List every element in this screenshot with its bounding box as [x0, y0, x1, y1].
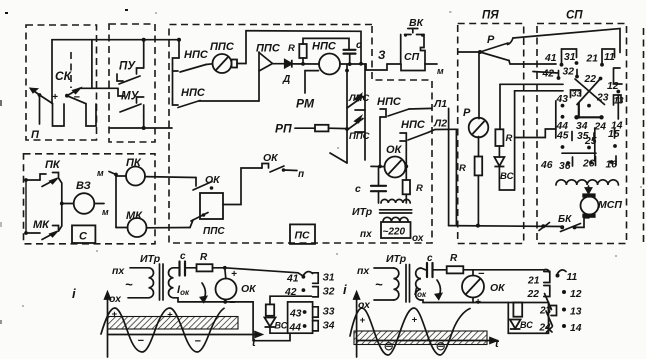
contact NPS-A1: [380, 109, 409, 117]
svg-text:+: +: [360, 315, 366, 326]
svg-text:~: ~: [375, 277, 383, 292]
hbar end dots: [574, 115, 578, 119]
stray scan speck top-left: [5, 12, 8, 14]
svg-text:~: ~: [125, 277, 133, 292]
motor MSP brush bottom: [582, 214, 595, 218]
wire: SK plunger U right: [86, 104, 96, 126]
svg-text:26: 26: [582, 159, 595, 170]
node OK left: [378, 165, 382, 169]
svg-text:З1: З1: [323, 273, 335, 284]
contact Z (bridge): [366, 64, 387, 70]
svg-text:ВС: ВС: [500, 171, 514, 182]
wire: secondary top to cap (right): [421, 268, 426, 270]
device box S: [72, 225, 95, 243]
dot col4 mid: [561, 115, 565, 119]
bracket 21: [544, 269, 550, 282]
wire: to terminal A1: [409, 107, 432, 110]
diode VS (right diagram): [510, 320, 521, 330]
motor MSP (circle): [581, 197, 599, 215]
hatched band: [108, 317, 239, 330]
svg-text:−: −: [138, 335, 145, 347]
svg-text:ПК: ПК: [45, 159, 61, 171]
resistor R (snubber, vertical): [299, 44, 306, 58]
resistor R (vertical): [403, 180, 410, 194]
axis vertical with arrow (right): [354, 292, 360, 357]
contact MU: [118, 88, 144, 116]
contact OK output: [262, 164, 297, 173]
pin 32 hooks: [559, 70, 578, 78]
wire: OK left lead: [371, 165, 385, 167]
capacitor c (left diagram): [180, 262, 186, 276]
relay frame box: [200, 193, 223, 219]
wire: feed down to OK coil right: [405, 141, 407, 166]
contact P (changeover): [480, 38, 513, 61]
pin 31 bracket: [562, 49, 577, 64]
svg-text:31: 31: [564, 52, 576, 63]
machine MK (circle): [128, 218, 147, 237]
wire: coil to motor with arrow: [586, 186, 592, 193]
resistor R2 (vertical): [495, 129, 503, 146]
pin 31 dots: [560, 63, 564, 67]
contact NPS lower: [173, 99, 201, 108]
brush terminal of PPS machine: [232, 60, 238, 68]
terminal 14 dot: [562, 324, 566, 328]
wire: vertical joining PK and MK coils: [115, 175, 117, 228]
wire: VK right leg with jog: [421, 35, 426, 65]
svg-text:21: 21: [527, 276, 540, 287]
wire: R to bottom rail: [477, 175, 479, 225]
svg-text:i: i: [343, 282, 347, 297]
wire: m stub: [109, 172, 116, 175]
current arrow arc (right): [436, 280, 442, 299]
selector slant 23-24: [546, 311, 553, 326]
selector matrix SP: [540, 49, 624, 172]
wire: to VZ: [62, 203, 74, 205]
wire: contacts common vertical to VZ: [59, 178, 62, 231]
svg-text:Д: Д: [282, 74, 290, 85]
svg-text:ВС: ВС: [520, 320, 533, 330]
wire: to PK coil: [116, 175, 126, 177]
wire: SK right inner vertical: [91, 40, 93, 89]
wire: SK to MU cross wire y=88: [80, 87, 118, 89]
svg-text:+: +: [231, 269, 237, 280]
wire: ox lead: [128, 297, 149, 299]
svg-text:БК: БК: [558, 214, 572, 225]
svg-text:с: с: [355, 183, 361, 195]
wire: main wire NPS to Z bridge: [340, 63, 366, 65]
wire: left box edge vertical between contacts: [25, 180, 27, 233]
dashed box SP: [537, 24, 627, 244]
wire: Z2 to RC branch: [270, 296, 312, 304]
resistor R (right diagram): [447, 266, 464, 273]
current arrow arc: [201, 283, 207, 302]
wire: P meter drop: [478, 52, 480, 119]
wire: vertical rail x347 (cap node down): [346, 64, 348, 163]
capacitor c (coupling): [371, 186, 386, 191]
wire: P contact common lead: [458, 51, 480, 53]
node at x361: [359, 62, 363, 66]
wire: relay tap to OK output contact: [223, 168, 262, 205]
svg-text:с: с: [427, 253, 433, 264]
contact PPS lower (to MK): [190, 213, 208, 228]
svg-text:R: R: [288, 43, 295, 54]
svg-text:~220: ~220: [383, 227, 406, 238]
node at R bottom: [301, 62, 305, 66]
wire: SK plunger U left: [53, 104, 65, 127]
svg-text:МК: МК: [126, 210, 143, 222]
circled minus 1: [385, 343, 392, 350]
pushbutton VK: [404, 29, 424, 37]
bracket 22: [544, 286, 550, 297]
terminal 12 dot: [562, 290, 566, 294]
hook 41: [304, 272, 313, 275]
svg-text:43: 43: [556, 94, 569, 105]
amplifier PPS arrow: [259, 52, 273, 101]
wire: BK to motor bottom: [575, 218, 590, 228]
label PS box: [290, 224, 315, 244]
node at PU box top: [142, 38, 146, 42]
hook 11: [558, 270, 567, 274]
svg-text:Л2: Л2: [433, 118, 447, 130]
contact MK left: [24, 226, 58, 240]
svg-text:Р: Р: [487, 34, 495, 46]
pin 32 dots: [557, 76, 561, 80]
resistor R (VS branch right): [513, 303, 522, 317]
wire: OK top stub: [225, 268, 226, 279]
cross mark x: [547, 327, 553, 332]
r5 dots: [561, 145, 565, 149]
wire: R to terminal 21: [463, 269, 544, 271]
svg-text:−: −: [195, 336, 202, 348]
wire: MK circle to PPS contact: [147, 227, 191, 229]
wire: RM stub from machine: [305, 71, 319, 93]
svg-text:ПУ: ПУ: [119, 61, 136, 73]
svg-text:14: 14: [570, 323, 582, 334]
svg-text:З2: З2: [323, 287, 335, 298]
wire: OK top stub (right): [472, 270, 474, 276]
thyristor PPS: [347, 117, 365, 133]
svg-text:+: +: [52, 92, 58, 103]
wire: cap to R: [185, 267, 197, 269]
bracket Z3: [313, 307, 319, 317]
svg-text:ВЗ: ВЗ: [76, 180, 91, 192]
wire: R stubs: [405, 166, 407, 180]
svg-text:32: 32: [563, 67, 575, 78]
svg-text:СП: СП: [566, 10, 583, 22]
terminal 43 dot: [303, 310, 307, 314]
pin 22 dot: [599, 77, 603, 81]
svg-text:11: 11: [567, 272, 578, 283]
svg-text:33: 33: [572, 89, 582, 99]
wire: px lead (right): [374, 267, 394, 269]
svg-text:46: 46: [540, 160, 553, 171]
machine NPS (plain circle): [319, 54, 340, 75]
wire: NPS lower to PPS arrow base: [199, 100, 259, 102]
svg-text:пх: пх: [360, 229, 372, 240]
svg-text:ОК: ОК: [386, 144, 403, 156]
svg-text:пх: пх: [357, 265, 370, 277]
wire: to MK coil: [116, 227, 128, 229]
axis horizontal with arrow: [108, 332, 263, 338]
contact NPS-A2: [400, 133, 428, 142]
svg-text:НПС: НПС: [312, 41, 337, 53]
wire: second column x514: [514, 91, 516, 190]
svg-text:ИТр: ИТр: [352, 206, 373, 218]
wire: cap bottom stub: [349, 54, 351, 65]
stray speck left edge: [0, 100, 2, 106]
wire: R2 column vertical: [499, 84, 501, 129]
contact OK upper: [193, 178, 213, 191]
thyristor LPS: [347, 95, 365, 111]
contact BK: [560, 224, 580, 232]
svg-text:R: R: [200, 252, 208, 263]
pin 12 bracket: [614, 68, 623, 84]
diode VS (left diagram): [265, 318, 276, 328]
node RP junction: [345, 127, 349, 131]
svg-text:41: 41: [544, 53, 557, 64]
svg-text:ППС: ППС: [210, 41, 235, 53]
wire: SK left vertical: [51, 40, 53, 104]
contact PK left: [24, 173, 58, 187]
bracket Z2: [313, 287, 319, 297]
node OK right: [404, 165, 408, 169]
wire: bridge to terminal m: [425, 63, 437, 65]
resistor R (PYa left): [475, 157, 483, 176]
motor MSP brush top: [582, 193, 595, 197]
svg-text:R: R: [416, 183, 423, 194]
svg-text:44: 44: [289, 323, 302, 334]
matrix hbar row56: [562, 152, 596, 154]
svg-text:С: С: [79, 231, 88, 243]
terminal 42 dot: [302, 288, 306, 292]
svg-text:СК: СК: [55, 69, 73, 83]
terminal 44 dot: [303, 324, 307, 328]
transformer ITr primary winding: [381, 199, 410, 203]
wire: vertical rail x365 down from main wire: [364, 64, 366, 160]
wire: R2 to VS: [498, 146, 500, 157]
sine waveform: [101, 308, 224, 352]
transformer ITr core: [380, 209, 412, 211]
transformer secondary (vertical winding): [169, 268, 174, 298]
terminal 41 dot: [302, 275, 306, 279]
wire: ox lead (right): [374, 299, 394, 301]
diode D: [285, 60, 292, 68]
svg-text:23: 23: [596, 93, 609, 104]
wire: NPS bracket down feed: [172, 64, 174, 99]
device VZ (circle): [74, 193, 95, 214]
transformer core lines: [159, 264, 161, 300]
svg-text:ОК: ОК: [241, 283, 257, 295]
wire: feed to matrix row4: [515, 129, 556, 138]
svg-text:п: п: [298, 169, 304, 180]
meter P (circle with slash): [469, 118, 489, 138]
wire: secondary bottom return: [174, 298, 179, 302]
machine PPS (circle with slash): [213, 54, 232, 73]
bracket Z4: [313, 321, 319, 331]
emitter diagonal bottom: [330, 153, 347, 163]
wire: bottom rail: [449, 225, 563, 228]
node below OK: [223, 300, 227, 304]
wire: upper throw rail to SP top right: [513, 29, 620, 53]
r3 dots: [561, 104, 565, 108]
svg-text:ИТр: ИТр: [140, 253, 161, 265]
svg-text:Р: Р: [463, 107, 471, 119]
svg-text:−: −: [74, 92, 81, 104]
svg-text:с: с: [180, 251, 186, 262]
svg-text:НПС: НПС: [401, 119, 426, 131]
svg-text:ОК: ОК: [490, 282, 506, 294]
dashed outer right margin line: [643, 28, 645, 242]
svg-text:МСП: МСП: [598, 199, 622, 211]
svg-text:НПС: НПС: [181, 87, 206, 99]
svg-text:+: +: [412, 315, 418, 326]
resistor R (left diagram): [197, 264, 213, 271]
lower terminal frame: [288, 302, 313, 333]
svg-text:R: R: [450, 253, 458, 264]
wire: PK circle to OK relay contact: [145, 176, 196, 179]
svg-text:i: i: [72, 286, 76, 301]
wire: feed to matrix row3b: [515, 90, 563, 92]
transformer ITr secondary winding: [383, 217, 408, 221]
svg-text:+: +: [112, 309, 118, 320]
dashed box PU/MU: [109, 24, 155, 142]
svg-text:ОК: ОК: [263, 152, 279, 164]
node at MU bottom: [142, 126, 146, 130]
wire: VK left leg: [400, 35, 402, 65]
svg-text:ИТр: ИТр: [386, 253, 407, 265]
svg-text:ох: ох: [358, 299, 371, 311]
svg-text:ПС: ПС: [295, 230, 311, 242]
pin brackets row6: [573, 156, 617, 166]
matrix vertical left rail: [555, 101, 557, 138]
svg-text:−: −: [229, 297, 236, 309]
contact SK left (changeover): [31, 89, 53, 125]
wire: machine right to top rail: [237, 31, 361, 64]
dashed box SK (relay CK group): [26, 25, 97, 140]
node under capacitor: [348, 62, 352, 66]
wire: drop from node to NPS contact: [178, 40, 180, 58]
svg-text:З3: З3: [323, 307, 335, 318]
node bottom rail left: [476, 224, 480, 228]
cross wire X2: [577, 79, 601, 105]
svg-text:41: 41: [286, 274, 299, 285]
svg-text:РП: РП: [275, 122, 292, 136]
resistor R (VS branch): [266, 304, 274, 315]
node top rail entering middle box: [177, 38, 181, 42]
resistor RP (horizontal): [315, 125, 329, 132]
wire: MU bottom to middle box: [110, 127, 172, 129]
wire: R stubs and RC bar: [302, 58, 304, 64]
wire: RP leads: [295, 127, 315, 129]
node above OK: [223, 266, 227, 270]
svg-text:ох: ох: [412, 233, 424, 244]
node at 347,70: [345, 69, 349, 73]
matrix hbar row34: [576, 116, 602, 118]
contact SK right (changeover): [65, 88, 86, 103]
wire: A2 drop into PYa: [455, 129, 457, 225]
svg-text:ВС: ВС: [275, 321, 288, 331]
wire: SK top bar y=40 to PU node and middle box: [52, 39, 179, 41]
device OK (right, circle with slash): [462, 276, 484, 298]
supply box ~220: [381, 222, 411, 238]
wire: px lead: [130, 267, 149, 269]
dashed main middle box outline (with notch at top right): [169, 25, 432, 244]
transformer primary (right diagram): [394, 268, 399, 300]
svg-text:ох: ох: [109, 293, 122, 305]
wire: machine left lead: [206, 63, 213, 66]
contact NPS upper: [173, 58, 207, 72]
cross wire X1: [575, 79, 605, 105]
machine OK (circle with slash): [385, 157, 406, 178]
wire: VZ right stub: [94, 203, 104, 205]
tick at node: [539, 223, 550, 231]
terminal 11 dot: [556, 274, 560, 278]
wire: OK bottom stub: [224, 300, 226, 302]
wire: cap stubs: [378, 166, 380, 185]
pin 13 bracket: [614, 95, 622, 105]
transformer secondary (right): [416, 268, 421, 300]
pin 33 bracket: [571, 90, 581, 98]
wire: bottom return (right): [421, 300, 508, 303]
svg-text:м: м: [437, 66, 444, 76]
dashed box PK/MK (bottom-left): [24, 154, 156, 244]
svg-text:Л1: Л1: [433, 98, 447, 110]
inner dashed divider in SK box: [70, 52, 72, 88]
svg-text:ПЯ: ПЯ: [482, 10, 499, 22]
wire: lower throw to matrix row1: [509, 61, 556, 65]
wire: VS down and bottom bar: [499, 167, 514, 191]
svg-text:42: 42: [542, 69, 555, 80]
wire: feed to matrix row3 (from R2 col): [500, 83, 563, 85]
svg-text:21: 21: [586, 54, 599, 65]
svg-text:РМ: РМ: [296, 97, 315, 111]
svg-text:пх: пх: [112, 265, 125, 277]
svg-text:З: З: [378, 50, 386, 62]
circled minus 2: [437, 343, 444, 350]
svg-text:45: 45: [556, 131, 569, 142]
node bottom rail mid: [541, 224, 545, 228]
svg-text:м: м: [97, 168, 104, 178]
r6 dots: [566, 161, 570, 165]
svg-text:НПС: НПС: [184, 49, 209, 61]
selector slant 22-23: [545, 294, 552, 310]
svg-text:R: R: [506, 133, 513, 144]
node VZ left: [60, 202, 64, 206]
svg-text:с: с: [356, 40, 362, 51]
wire: feed down to OK coil left: [379, 117, 381, 166]
pin 11 dot: [600, 63, 604, 67]
wire: A1 drop into PYa: [448, 108, 450, 225]
pin brackets row5: [572, 129, 615, 142]
axis horizontal with arrow (right): [357, 338, 497, 344]
matrix vertical col3: [578, 103, 580, 118]
wire: bottom return to frame: [178, 302, 290, 341]
axis vertical with arrow: [105, 292, 111, 357]
wire: VS to frame bottom: [270, 327, 288, 333]
bracket Z1: [313, 273, 319, 284]
wire: meter to R: [478, 137, 480, 157]
diode VS (zener): [494, 157, 504, 167]
svg-text:12: 12: [570, 289, 582, 300]
stray scan speck above PU box: [125, 9, 128, 11]
svg-text:П: П: [31, 129, 40, 141]
bracket 23: [551, 306, 557, 316]
svg-text:НПС: НПС: [377, 96, 402, 108]
sine waveform (right): [350, 308, 470, 355]
wire: to terminal A2: [428, 129, 456, 132]
transformer core (right): [405, 265, 407, 303]
capacitor c (snubber): [344, 50, 356, 54]
